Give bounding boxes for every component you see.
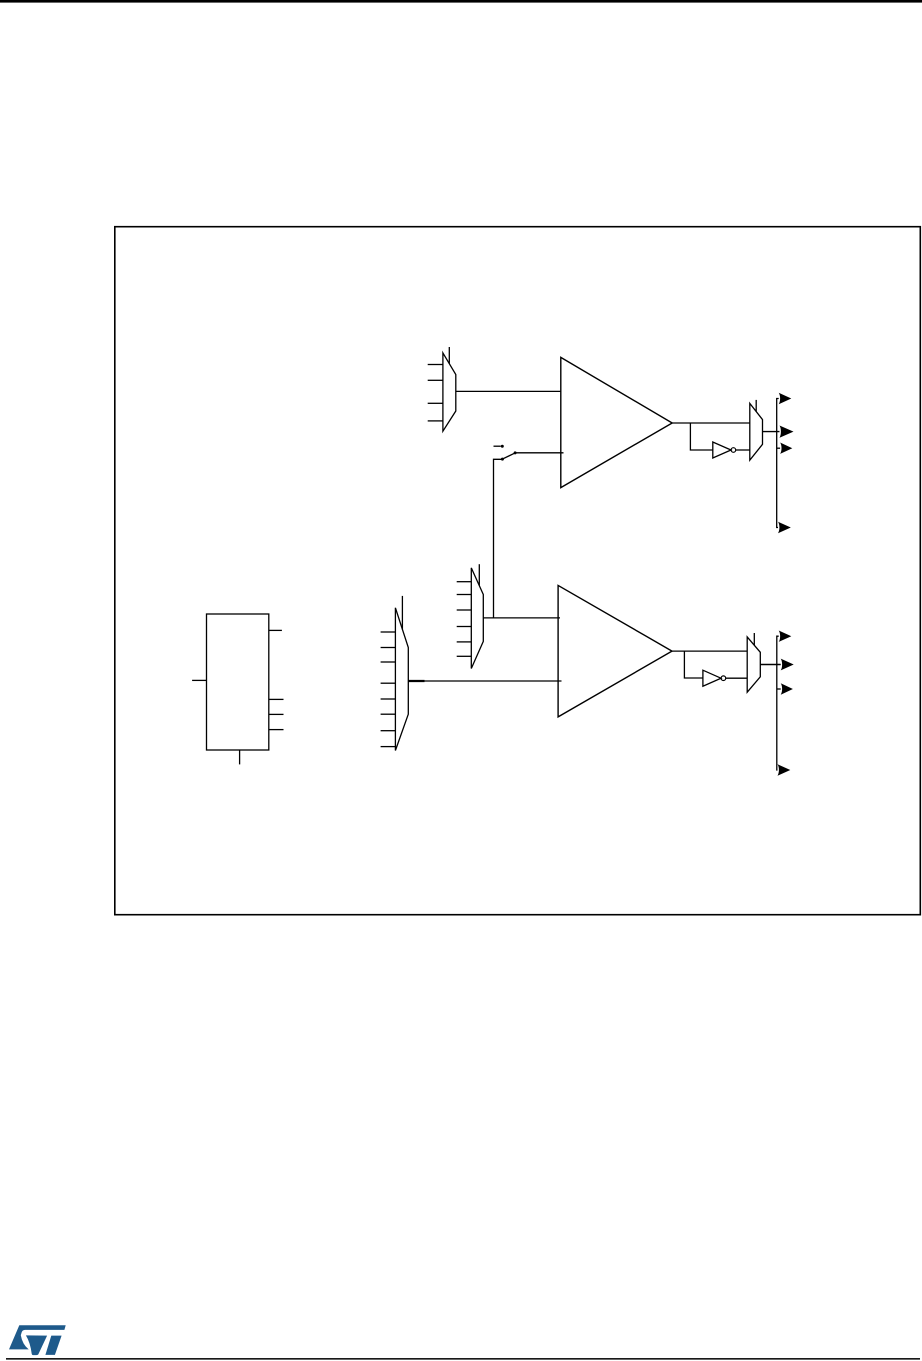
arrow A1 (779, 393, 792, 404)
M2 input stub 1 (457, 581, 472, 583)
mux M2 (6-input) (471, 568, 483, 669)
M2 input stub 4 (457, 626, 472, 628)
comparator U2 (bottom) (558, 585, 672, 717)
M4 input stub 5 (381, 698, 396, 700)
arrow A4 (778, 522, 791, 533)
N2 bubble (721, 676, 726, 681)
arrow A2 (780, 426, 794, 438)
M2 select line (478, 564, 480, 585)
R1 bottom stub (239, 750, 241, 764)
mux M3 (2:1 polarity select, top) (750, 403, 763, 460)
output bus vertical (top) (777, 399, 779, 528)
M5 select line (753, 633, 755, 645)
wire M4 output to U2 - input (425, 680, 562, 682)
M1 input stub 4 (428, 420, 443, 422)
mux M5 (2:1 polarity select, bottom) (747, 637, 760, 692)
ST logo (9, 1325, 66, 1355)
R1 right stub 2 (269, 698, 284, 700)
arrow B1 (779, 631, 792, 642)
footer rule (6, 1358, 920, 1360)
M4 input stub 8 (381, 746, 396, 748)
M1 input stub 3 (428, 402, 443, 404)
figure frame (115, 227, 921, 915)
arrow B4 (778, 764, 791, 775)
M3 select line (755, 400, 757, 412)
N1 bubble (731, 448, 736, 453)
M1 input stub 2 (428, 379, 443, 381)
wire M2 output to U2 + input (483, 617, 560, 619)
M2 input stub 2 (457, 594, 472, 596)
wire SW1 lower contact down to mux M2 output node (494, 459, 503, 618)
inverter N2 (703, 670, 721, 686)
SW1 lower contact dot (501, 458, 504, 461)
M4 input stub 2 (381, 647, 396, 649)
switch SW1 throw stub (494, 445, 501, 447)
header rule (0, 0, 922, 3)
M4 select line (401, 596, 403, 630)
inverter N1 (713, 442, 731, 458)
mux M4 (8-input, bottom) (395, 608, 408, 751)
mux M1 (4-input, top) (443, 353, 456, 431)
M2 input stub 6 (457, 655, 472, 657)
M4 input stub 6 (381, 713, 396, 715)
wire N2 to mux M5 (726, 677, 748, 679)
stub to arrow B3 (777, 688, 781, 690)
block R1 (voltage reference) (207, 614, 269, 750)
wire branch to inverter N1 (690, 423, 712, 450)
SW1 blade (502, 453, 515, 459)
R1 right stub 4 (269, 729, 284, 731)
wire M5 output (760, 664, 780, 666)
wire branch to inverter N2 (684, 651, 703, 678)
wire M3 output (763, 431, 780, 433)
M2 input stub 3 (457, 609, 472, 611)
R1 left stub (192, 679, 206, 681)
M4 input stub 4 (381, 682, 396, 684)
arrow B3 (781, 683, 793, 694)
wire U1 output (672, 422, 750, 424)
wire N1 to mux M3 (736, 449, 750, 451)
M4 input stub 7 (381, 730, 396, 732)
M4 output stub (thick) (408, 680, 424, 682)
output bus vertical (bottom) (777, 636, 779, 770)
stub to arrow A3 (777, 447, 780, 449)
M4 input stub 1 (381, 631, 396, 633)
arrow B2 (781, 659, 794, 671)
M1 input stub 1 (428, 364, 443, 366)
R1 right stub 1 (269, 629, 282, 631)
arrow A3 (780, 443, 792, 454)
M1 select line (448, 347, 450, 364)
wire switch common to U1 - input (516, 452, 564, 454)
R1 right stub 3 (269, 713, 284, 715)
comparator U1 (top) (561, 357, 672, 487)
M2 input stub 5 (457, 641, 472, 643)
SW1 throw contact dot (501, 445, 504, 448)
SW1 common contact dot (514, 451, 517, 454)
M4 input stub 3 (381, 661, 396, 663)
wire M1 output to comparator U1 + input (456, 390, 562, 392)
wire U2 output (672, 650, 747, 652)
